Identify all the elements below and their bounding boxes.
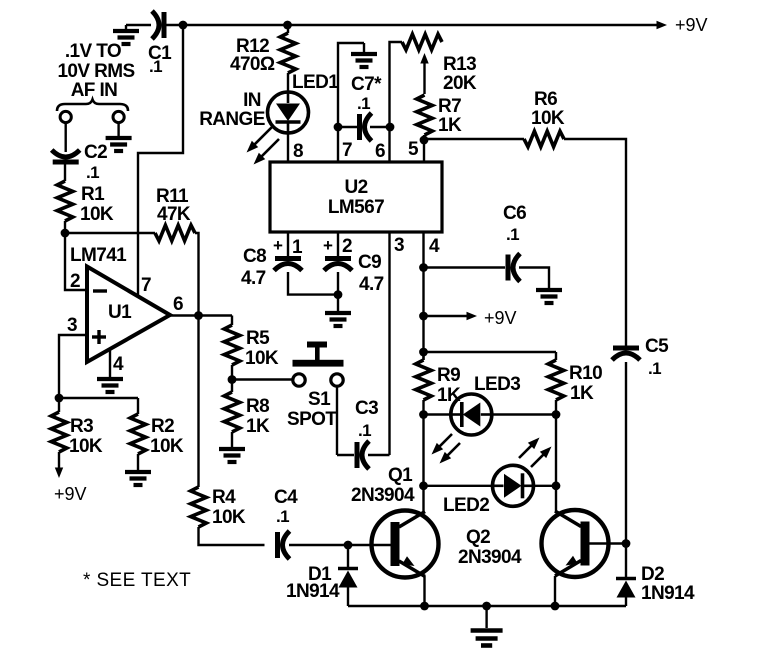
wire R1 to node A bbox=[64, 221, 66, 233]
ground U1 pin 4 bbox=[97, 349, 123, 392]
arrowhead R3 +9V bbox=[55, 468, 63, 479]
svg-text:+: + bbox=[273, 236, 283, 255]
label C1 .1 bbox=[148, 43, 172, 76]
svg-text:C4: C4 bbox=[274, 487, 298, 508]
svg-text:10K: 10K bbox=[69, 436, 103, 457]
label D1 1N914 bbox=[286, 564, 340, 602]
ground C6 bbox=[519, 268, 562, 304]
light ray arrows LED1 bbox=[243, 124, 282, 168]
svg-text:.1: .1 bbox=[149, 57, 162, 76]
resistor R11 bbox=[155, 225, 195, 241]
node +9V branch junction bbox=[419, 312, 428, 321]
svg-text:LM741: LM741 bbox=[70, 245, 127, 266]
terminal AF IN right bbox=[113, 111, 124, 122]
wire R6 to right bus bbox=[564, 139, 626, 346]
wire C8 to ground node bbox=[288, 272, 338, 295]
label R10 1K bbox=[569, 363, 602, 404]
resistor R3 bbox=[51, 398, 67, 452]
label R2 10K bbox=[150, 416, 184, 457]
node C7 right junction bbox=[386, 123, 395, 132]
label R7 1K bbox=[438, 96, 462, 136]
wire Q2 emitter vertical bbox=[554, 576, 556, 606]
switch S1 bbox=[293, 342, 344, 387]
svg-text:R1: R1 bbox=[81, 184, 105, 205]
op-amp U1 LM741 bbox=[87, 267, 170, 363]
svg-text:8: 8 bbox=[293, 141, 303, 162]
label R5 10K bbox=[245, 328, 279, 369]
wire LED1 to U2 pin 8 bbox=[287, 133, 289, 162]
arrowhead +9V rail bbox=[657, 21, 668, 29]
svg-text:10K: 10K bbox=[212, 507, 246, 528]
node R7/pin5/R6 junction bbox=[420, 136, 429, 145]
wire Q1 collector vertical bbox=[422, 486, 424, 512]
svg-text:10K: 10K bbox=[150, 436, 184, 457]
label IN RANGE bbox=[199, 90, 265, 130]
svg-text:6: 6 bbox=[173, 294, 183, 315]
resistor R8 bbox=[224, 380, 240, 433]
ground (AF IN right terminal) bbox=[106, 123, 132, 151]
svg-text:R6: R6 bbox=[534, 89, 557, 110]
svg-text:20K: 20K bbox=[443, 73, 477, 94]
label U2 LM567 bbox=[328, 177, 384, 218]
wire U1 output bbox=[170, 314, 232, 316]
brace AF IN bbox=[57, 100, 128, 112]
label R11 47K bbox=[156, 186, 191, 225]
label R6 10K bbox=[531, 89, 565, 129]
label C6 .1 bbox=[503, 203, 526, 244]
label S1 SPOT bbox=[287, 389, 337, 430]
svg-text:SPOT: SPOT bbox=[287, 409, 337, 430]
resistor R2 bbox=[130, 398, 146, 454]
wire C7 right bbox=[370, 126, 390, 128]
svg-text:C3: C3 bbox=[355, 398, 378, 419]
plus sign U1 bbox=[92, 330, 106, 344]
node B (R5/R8/S1 junction) bbox=[228, 375, 237, 384]
svg-text:.1: .1 bbox=[506, 225, 519, 244]
svg-text:+: + bbox=[323, 236, 333, 255]
svg-text:6: 6 bbox=[375, 141, 385, 162]
svg-text:3: 3 bbox=[394, 235, 404, 256]
diode D1 1N914 bbox=[338, 545, 358, 606]
node bottom Q1 emitter junction bbox=[420, 602, 429, 611]
ground C8/C9 bbox=[325, 272, 351, 326]
wire pin3 node to R2 bbox=[59, 397, 138, 399]
wire C5 to Q2 base node bbox=[625, 362, 627, 544]
node C8/C9 junction bbox=[334, 290, 343, 299]
svg-text:C7*: C7* bbox=[351, 74, 382, 95]
node pin3/R3/R2 junction bbox=[55, 394, 64, 403]
svg-text:.1V TO: .1V TO bbox=[65, 41, 121, 62]
wire pin5 to R6 bbox=[424, 138, 524, 140]
ground (top left, at C1) bbox=[113, 25, 151, 44]
label C8 4.7 bbox=[241, 246, 266, 289]
wire C4 to Q1 base bbox=[289, 544, 391, 546]
potentiometer R13 bbox=[402, 34, 442, 50]
wire LED3 left bbox=[424, 413, 453, 415]
terminal AF IN left bbox=[60, 111, 71, 122]
svg-text:* SEE TEXT: * SEE TEXT bbox=[83, 570, 191, 591]
resistor R5 bbox=[224, 316, 240, 366]
label C5 .1 bbox=[645, 336, 669, 378]
wire node B to S1 bbox=[232, 378, 293, 380]
node bottom Q2 emitter junction bbox=[551, 602, 560, 611]
svg-text:4: 4 bbox=[113, 354, 124, 375]
node C7 left junction bbox=[334, 123, 343, 132]
capacitor C2 bbox=[52, 150, 80, 162]
wire bottom bus bbox=[348, 605, 626, 607]
svg-text:S1: S1 bbox=[308, 389, 331, 410]
svg-text:R13: R13 bbox=[443, 54, 476, 75]
svg-text:3: 3 bbox=[67, 315, 77, 336]
wire LED3 row to Q1 collector node bbox=[422, 415, 424, 486]
svg-text:10K: 10K bbox=[531, 108, 565, 129]
svg-text:1K: 1K bbox=[438, 115, 462, 136]
wire R12 to LED1 bbox=[287, 73, 289, 92]
svg-text:1K: 1K bbox=[246, 416, 270, 437]
svg-text:.1: .1 bbox=[86, 163, 99, 182]
wire C3 left bbox=[337, 454, 354, 456]
svg-text:R8: R8 bbox=[246, 396, 269, 417]
svg-text:1N914: 1N914 bbox=[286, 581, 340, 602]
wire U2 pin 7 up to C7 net bbox=[338, 43, 364, 162]
svg-text:R7: R7 bbox=[438, 96, 461, 117]
svg-text:4: 4 bbox=[429, 236, 440, 257]
svg-text:2N3904: 2N3904 bbox=[458, 547, 522, 568]
label R4 10K bbox=[212, 487, 246, 528]
wire LED3 right to R10 bbox=[491, 413, 556, 415]
node Q1 base/D1 junction bbox=[344, 541, 353, 550]
label R8 1K bbox=[246, 396, 270, 437]
wire LED2 right bbox=[534, 485, 556, 487]
svg-text:47K: 47K bbox=[157, 204, 191, 225]
svg-text:LED3: LED3 bbox=[474, 374, 520, 395]
svg-text:.1: .1 bbox=[648, 359, 661, 378]
wire U2 pin 3 down bbox=[388, 232, 390, 455]
svg-text:Q1: Q1 bbox=[388, 465, 413, 486]
node junction rail/U1 supply bbox=[179, 21, 188, 30]
node C6 junction bbox=[419, 263, 428, 272]
LED2 bbox=[493, 465, 534, 506]
resistor R4 bbox=[191, 487, 207, 527]
label R12 470ohm bbox=[230, 36, 275, 75]
svg-text:LED2: LED2 bbox=[443, 495, 489, 516]
svg-text:10K: 10K bbox=[245, 348, 279, 369]
label D2 1N914 bbox=[641, 564, 695, 604]
svg-text:4.7: 4.7 bbox=[359, 274, 384, 295]
label C4 .1 bbox=[274, 487, 298, 526]
label Q2 2N3904 bbox=[458, 527, 522, 568]
svg-text:10K: 10K bbox=[80, 204, 114, 225]
capacitor C1 bbox=[152, 11, 164, 39]
svg-text:AF IN: AF IN bbox=[71, 80, 118, 101]
light ray arrows LED3 bbox=[428, 431, 463, 467]
svg-text:2: 2 bbox=[70, 271, 80, 292]
svg-text:10V RMS: 10V RMS bbox=[57, 61, 134, 82]
IC U2 LM567 bbox=[270, 162, 442, 232]
resistor R1 bbox=[57, 181, 73, 221]
svg-text:.1: .1 bbox=[357, 94, 370, 113]
label C9 4.7 bbox=[358, 252, 384, 295]
svg-text:C9: C9 bbox=[358, 252, 381, 273]
svg-text:C5: C5 bbox=[645, 336, 669, 357]
resistor R9 bbox=[416, 352, 432, 400]
wire LED2 left bbox=[424, 485, 494, 487]
resistor R12 bbox=[280, 21, 296, 73]
node bottom ground junction bbox=[482, 602, 491, 611]
transistor Q1 2N3904 bbox=[372, 511, 439, 578]
resistor R7 bbox=[417, 95, 433, 135]
capacitor C5 bbox=[612, 348, 640, 360]
wire C2 to R1 bbox=[64, 164, 66, 181]
svg-text:R10: R10 bbox=[569, 363, 602, 384]
capacitor C3 bbox=[357, 441, 369, 469]
svg-text:2: 2 bbox=[342, 236, 352, 257]
label C2 .1 bbox=[84, 142, 107, 182]
svg-text:IN: IN bbox=[243, 90, 261, 111]
label C7* .1 bbox=[351, 74, 382, 113]
wire Q1 emitter vertical bbox=[423, 576, 425, 606]
wire U1 pin 3 bbox=[59, 335, 87, 398]
svg-text:+9V: +9V bbox=[54, 484, 87, 504]
minus sign U1 bbox=[93, 289, 107, 292]
svg-text:5: 5 bbox=[408, 139, 419, 160]
svg-text:C6: C6 bbox=[503, 203, 526, 224]
svg-text:1: 1 bbox=[292, 237, 303, 258]
svg-text:R3: R3 bbox=[70, 416, 93, 437]
svg-text:C2: C2 bbox=[84, 142, 107, 163]
label Q1 2N3904 bbox=[351, 465, 415, 506]
wire output node to R4 bbox=[197, 316, 199, 488]
node R9 top junction bbox=[419, 348, 428, 357]
capacitor C7 bbox=[360, 113, 372, 141]
wire U2 pin 2 to C9 bbox=[337, 232, 339, 256]
diode D2 1N914 bbox=[616, 544, 636, 607]
node Q1 collector junction bbox=[419, 481, 428, 490]
svg-text:.1: .1 bbox=[358, 421, 371, 440]
ground R2 bbox=[125, 454, 151, 485]
svg-text:2N3904: 2N3904 bbox=[351, 485, 415, 506]
resistor R10 bbox=[548, 352, 564, 415]
wire Q2 base bbox=[590, 542, 627, 544]
capacitor C4 bbox=[278, 531, 290, 559]
label R3 10K bbox=[69, 416, 103, 457]
wire R5 to node B bbox=[231, 365, 233, 380]
wire LED3 row to LED2 row (right) bbox=[555, 415, 557, 486]
wire U2 pin 6 up to R13 bbox=[390, 42, 403, 162]
svg-text:R2: R2 bbox=[151, 416, 174, 437]
svg-text:LM567: LM567 bbox=[328, 197, 384, 218]
svg-text:.1: .1 bbox=[276, 507, 289, 526]
node A (R1/R11/pin2 junction) bbox=[61, 229, 70, 238]
label R1 10K bbox=[80, 184, 114, 225]
svg-text:LED1: LED1 bbox=[292, 72, 339, 93]
wire +9V rail to U1 pin7 bbox=[138, 25, 183, 296]
capacitor C6 bbox=[508, 254, 520, 282]
svg-text:+9V: +9V bbox=[675, 15, 708, 35]
LED3 bbox=[451, 394, 492, 435]
svg-text:R5: R5 bbox=[246, 328, 270, 349]
svg-text:1N914: 1N914 bbox=[641, 583, 695, 604]
svg-text:Q2: Q2 bbox=[466, 527, 490, 548]
ground C7 net bbox=[351, 43, 377, 67]
svg-text:RANGE: RANGE bbox=[199, 109, 265, 130]
svg-text:R9: R9 bbox=[437, 365, 460, 386]
wire node A to R11 bbox=[65, 232, 155, 234]
LED1 bbox=[268, 92, 309, 133]
wire R4 to C4 bbox=[199, 527, 265, 545]
wire U2 pin 4 down bbox=[422, 232, 424, 360]
wire AF IN left to C2 bbox=[64, 123, 66, 152]
svg-text:+9V: +9V bbox=[484, 308, 517, 328]
svg-text:4.7: 4.7 bbox=[241, 268, 266, 289]
label R13 20K bbox=[443, 54, 477, 94]
node LED3 left junction bbox=[419, 410, 428, 419]
label R9 1K bbox=[437, 365, 461, 406]
wire R11 to U1 output node bbox=[195, 233, 199, 316]
svg-text:C8: C8 bbox=[243, 246, 266, 267]
arrowhead +9V branch bbox=[467, 312, 478, 320]
svg-text:470Ω: 470Ω bbox=[230, 54, 275, 75]
capacitor C9 bbox=[324, 259, 352, 271]
wire C7 left bbox=[338, 126, 357, 128]
wire U2 pin 1 to C8 bbox=[287, 232, 289, 256]
wire U2 pin 5 bbox=[423, 135, 425, 162]
wiper arrow R13 bbox=[420, 53, 428, 94]
svg-text:U1: U1 bbox=[108, 302, 132, 323]
light ray arrows LED2 bbox=[516, 434, 555, 470]
wire R3 to +9V arrow bbox=[58, 452, 60, 469]
resistor R6 bbox=[524, 131, 564, 147]
svg-text:D2: D2 bbox=[641, 564, 664, 585]
capacitor C8 bbox=[274, 259, 302, 271]
wire Q2 collector bbox=[555, 486, 557, 512]
ground bottom bus bbox=[471, 606, 503, 646]
wire pin4 node to C6 bbox=[424, 266, 506, 268]
label C3 .1 bbox=[355, 398, 378, 440]
wire R9 to LED3 row bbox=[422, 400, 424, 415]
wire R9 top to R10 top bbox=[424, 351, 557, 353]
label .1V TO 10V RMS AF IN bbox=[57, 41, 134, 101]
svg-text:7: 7 bbox=[141, 275, 151, 296]
node LED3 right junction bbox=[552, 410, 561, 419]
wire S1 to C3 bbox=[336, 387, 338, 456]
wire C3 right to pin 3 bbox=[368, 454, 390, 456]
svg-text:7: 7 bbox=[342, 140, 352, 161]
svg-text:U2: U2 bbox=[344, 177, 367, 198]
ground R8 bbox=[219, 432, 245, 462]
wire node A to U1 pin 2 bbox=[65, 233, 86, 290]
node LED2 right junction bbox=[552, 481, 561, 490]
wire +9V top rail bbox=[166, 24, 658, 26]
transistor Q2 2N3904 bbox=[542, 510, 609, 577]
svg-text:R4: R4 bbox=[212, 487, 236, 508]
wire +9V branch arrow bbox=[424, 315, 469, 317]
svg-text:1K: 1K bbox=[570, 383, 594, 404]
node Q2 base/C5/D2 junction bbox=[622, 539, 631, 548]
node U1 output junction bbox=[194, 311, 203, 320]
svg-text:1K: 1K bbox=[437, 385, 461, 406]
